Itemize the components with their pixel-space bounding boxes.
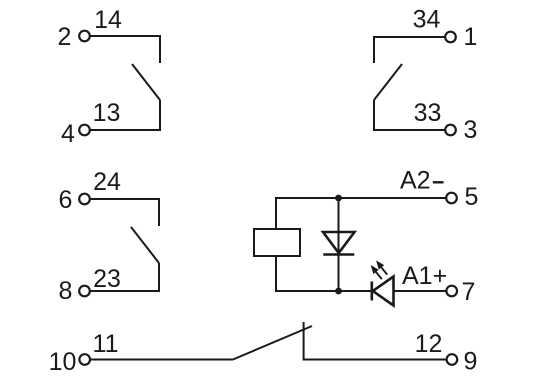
svg-text:9: 9 [464,348,478,376]
wire bottom rail to LED [339,290,372,292]
wire coil to bottom rail [276,256,339,291]
svg-text:2: 2 [58,23,72,51]
svg-text:1: 1 [464,23,478,51]
svg-text:23: 23 [93,265,121,293]
svg-text:6: 6 [59,186,73,214]
pin 7 terminal circle [446,286,457,297]
wire A2 top rail [276,198,446,228]
svg-text:7: 7 [462,278,476,306]
svg-text:11: 11 [93,330,119,358]
svg-text:10: 10 [49,348,77,376]
wire pin2 to contact 14 [91,36,161,63]
pin 5 terminal circle [446,193,457,204]
wire pin6 to contact 24 [91,199,160,226]
wire contact 33 to pin 3 [374,100,445,130]
wire diode branch bottom [338,255,340,292]
pin 2 terminal circle [79,31,90,42]
wire pin 10 to blade pivot [91,359,233,361]
pin 9 terminal circle [447,354,458,365]
pin 1 terminal circle [445,32,456,43]
svg-text:33: 33 [414,99,442,127]
svg-text:4: 4 [61,120,75,148]
wire pin1 to contact 34 [374,37,445,63]
wire contact 23 to pin 8 [91,263,160,291]
node junction bottom [335,288,342,295]
pin 8 terminal circle [79,286,90,297]
svg-text:3: 3 [464,116,478,144]
switch blade contact 34-33 [374,64,402,100]
relay coil K1 [254,229,300,256]
svg-text:5: 5 [465,183,479,211]
LED indicator [372,277,394,306]
switch blade contact 24-23 [131,227,159,263]
minus sign of net A2 [433,181,444,183]
wire contact 13 to pin 4 [91,100,161,130]
diode V1 (freewheeling) [323,232,355,255]
svg-text:A2: A2 [400,167,431,195]
svg-text:24: 24 [93,168,121,196]
contact 12 fixed post [304,322,446,360]
svg-text:14: 14 [94,6,122,34]
switch blade contact 11-12 [233,326,312,360]
svg-text:34: 34 [413,6,441,34]
pin 10 terminal circle [79,354,90,365]
svg-text:13: 13 [93,99,121,127]
pin 6 terminal circle [79,194,90,205]
wire diode branch top [338,198,340,254]
svg-text:12: 12 [415,330,443,358]
pin 4 terminal circle [79,125,90,136]
switch blade contact 14-13 [132,64,160,100]
node junction top [335,195,342,202]
wire LED to pin 7 [394,290,446,292]
LED light ray arrows [372,263,387,280]
svg-text:A1+: A1+ [402,262,447,290]
svg-text:8: 8 [59,277,73,305]
pin 3 terminal circle [445,125,456,136]
